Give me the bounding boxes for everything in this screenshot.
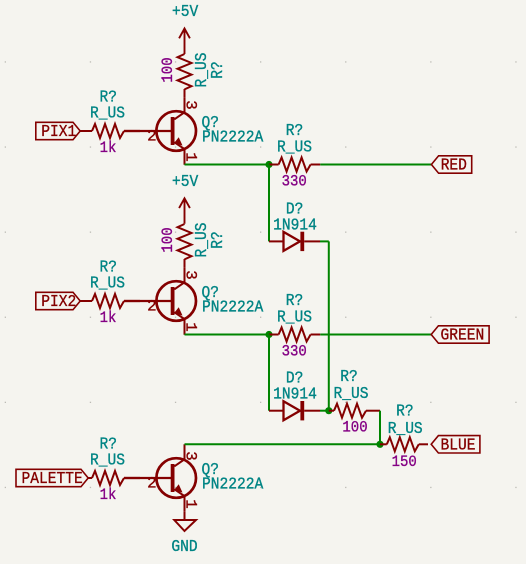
- svg-text:1: 1: [181, 152, 199, 162]
- junction node B: [265, 331, 272, 338]
- svg-text:R?: R?: [396, 402, 414, 421]
- svg-text:1: 1: [181, 499, 199, 509]
- svg-text:100: 100: [159, 227, 177, 252]
- wire cathode bus down: [328, 241, 330, 410]
- svg-text:330: 330: [282, 173, 307, 191]
- global label PIX1: [36, 122, 80, 141]
- svg-text:100: 100: [342, 419, 367, 437]
- diode D? 1N914 (lower): [269, 369, 320, 421]
- resistor R? R_US 150 (BLUE): [380, 402, 428, 472]
- junction node C: [325, 407, 332, 414]
- svg-text:3: 3: [181, 270, 199, 280]
- svg-text:+5V: +5V: [172, 172, 198, 191]
- svg-text:+5V: +5V: [172, 2, 198, 21]
- wire Q2 emitter: [185, 334, 270, 336]
- svg-text:100: 100: [159, 57, 177, 82]
- resistor R? R_US 100 (stage 1 collector): [159, 52, 227, 97]
- svg-text:PN2222A: PN2222A: [202, 298, 263, 317]
- global label RED: [431, 156, 471, 175]
- svg-text:R_US: R_US: [388, 419, 423, 438]
- resistor R? R_US 1k (PIX2 base): [90, 258, 140, 328]
- transistor Q2 PN2222A: [124, 267, 263, 334]
- svg-text:GND: GND: [171, 537, 197, 556]
- resistor R? R_US 1k (PIX1 base): [90, 88, 140, 158]
- resistor R? R_US 100 (stage 2 collector): [159, 222, 227, 267]
- resistor R? R_US 100 (summing): [329, 367, 380, 437]
- svg-text:1: 1: [181, 322, 199, 332]
- wire D1 cathode: [320, 240, 329, 242]
- global label GREEN: [431, 326, 489, 345]
- wire node B down: [268, 335, 270, 411]
- svg-text:2: 2: [147, 475, 157, 493]
- svg-text:R_US: R_US: [277, 138, 312, 157]
- svg-text:PIX2: PIX2: [41, 292, 76, 311]
- ground: [171, 512, 197, 556]
- svg-text:PIX1: PIX1: [41, 122, 76, 141]
- wire Q1 emitter: [185, 164, 270, 166]
- svg-text:1k: 1k: [100, 309, 117, 327]
- svg-text:R_US: R_US: [90, 274, 125, 293]
- svg-text:1k: 1k: [100, 486, 117, 504]
- svg-text:PN2222A: PN2222A: [202, 128, 263, 147]
- diode D? 1N914 (upper): [269, 199, 320, 251]
- junction node A: [265, 161, 272, 168]
- wire node A down: [268, 165, 270, 242]
- svg-text:1N914: 1N914: [273, 215, 317, 234]
- global label BLUE: [431, 435, 480, 454]
- svg-text:150: 150: [392, 453, 417, 471]
- wire D2 cathode: [320, 410, 329, 412]
- svg-text:1N914: 1N914: [273, 385, 317, 404]
- svg-text:BLUE: BLUE: [441, 435, 476, 454]
- wire summing to node D: [379, 411, 381, 445]
- wire Q3 collector: [185, 443, 381, 445]
- wire to GREEN label: [320, 334, 431, 336]
- junction node D: [376, 441, 383, 448]
- wire PIX2 to R: [80, 300, 92, 302]
- svg-text:R_US: R_US: [90, 451, 125, 470]
- svg-text:PALETTE: PALETTE: [22, 469, 83, 488]
- svg-text:R_US: R_US: [334, 384, 369, 403]
- power +5V (stage 2): [172, 172, 198, 224]
- svg-text:RED: RED: [441, 156, 467, 175]
- svg-text:PN2222A: PN2222A: [202, 475, 263, 494]
- global label PIX2: [36, 292, 80, 311]
- svg-text:R?: R?: [208, 61, 227, 79]
- wire to RED label: [320, 164, 431, 166]
- svg-text:R_US: R_US: [277, 308, 312, 327]
- svg-text:R_US: R_US: [90, 104, 125, 123]
- svg-text:2: 2: [147, 298, 157, 316]
- svg-text:R?: R?: [208, 231, 227, 249]
- resistor R? R_US 330 (GREEN): [269, 291, 320, 361]
- wire PIX1 to R: [80, 130, 92, 132]
- resistor R? R_US 1k (PALETTE base): [90, 435, 140, 505]
- svg-text:3: 3: [181, 100, 199, 110]
- svg-text:1k: 1k: [100, 139, 117, 157]
- transistor Q3 PN2222A: [124, 444, 263, 511]
- svg-text:GREEN: GREEN: [441, 326, 485, 345]
- wire PALETTE to R: [88, 477, 92, 479]
- power +5V (stage 1): [172, 2, 198, 54]
- svg-text:330: 330: [282, 343, 307, 361]
- transistor Q1 PN2222A: [124, 97, 263, 164]
- svg-text:2: 2: [147, 128, 157, 146]
- resistor R? R_US 330 (RED): [269, 121, 320, 191]
- svg-text:3: 3: [181, 451, 199, 461]
- global label PALETTE: [16, 469, 88, 488]
